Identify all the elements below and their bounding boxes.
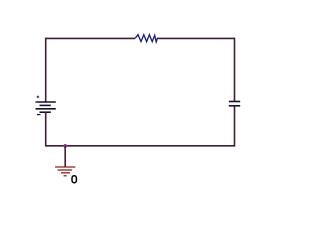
wire: bottom horizontal segment xyxy=(46,145,235,147)
wire: top-right horizontal segment from resistor xyxy=(159,37,235,39)
ground symbol xyxy=(55,167,75,176)
wire: ground stem xyxy=(64,146,66,167)
resistor R1 xyxy=(135,35,158,42)
capacitor C1 xyxy=(229,102,240,106)
wire: right vertical segment (capacitor to bottom corner) xyxy=(234,106,236,147)
battery minus mark xyxy=(37,114,41,116)
wire: left vertical segment (top corner to battery) xyxy=(45,38,47,102)
node label 0 xyxy=(72,176,76,183)
wire: top-left horizontal segment to resistor xyxy=(46,37,135,39)
wire: left vertical segment (battery to bottom corner) xyxy=(45,112,47,146)
battery plus mark xyxy=(37,96,40,99)
battery V1 xyxy=(36,102,56,112)
node junction dot xyxy=(63,144,67,148)
wire: right vertical segment (top corner to capacitor) xyxy=(234,38,236,102)
